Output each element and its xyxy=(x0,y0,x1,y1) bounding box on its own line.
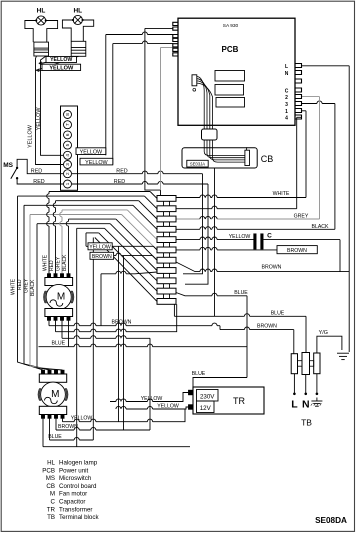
connector pair row 7 xyxy=(157,257,176,263)
svg-text:C: C xyxy=(51,499,56,506)
wire: capacitor right side xyxy=(264,239,341,241)
wire harness line L1 (motor2 white) xyxy=(49,191,150,193)
wire: PCB left top wire to chain xyxy=(145,27,173,29)
svg-text:Halogen lamp: Halogen lamp xyxy=(59,460,98,467)
svg-text:GREY: GREY xyxy=(294,213,309,219)
wire: motor2 blue xyxy=(50,439,94,441)
svg-text:Microswitch: Microswitch xyxy=(59,475,92,482)
svg-text:230V: 230V xyxy=(200,393,215,400)
transformer TR box xyxy=(193,387,264,414)
halogen lamp HL1 xyxy=(25,16,58,42)
TB connecting bars xyxy=(298,361,303,367)
svg-text:HL: HL xyxy=(37,8,46,15)
wire: yellow to transformer 230V xyxy=(110,393,189,402)
svg-text:MS: MS xyxy=(3,162,13,169)
svg-text:L: L xyxy=(291,399,298,411)
svg-text:N: N xyxy=(285,71,289,77)
wire harness line L5 (motor1 white) xyxy=(62,209,127,211)
wire: MS bottom contact to strip 1 xyxy=(17,178,63,184)
svg-text:M: M xyxy=(51,389,59,400)
svg-text:YELLOW: YELLOW xyxy=(49,65,74,71)
wire: yellow branch to chain row6 xyxy=(86,245,153,247)
terminal strip block xyxy=(61,106,78,190)
svg-text:4: 4 xyxy=(65,154,70,157)
PCB internal connector xyxy=(192,75,197,86)
svg-text:YELLOW: YELLOW xyxy=(141,396,163,402)
svg-text:Fan motor: Fan motor xyxy=(59,491,87,498)
wire: chain row2 to PCB pin 4 xyxy=(176,208,297,210)
svg-text:YELLOW: YELLOW xyxy=(36,107,42,131)
PCB power unit box xyxy=(178,18,295,125)
CB connector xyxy=(245,150,250,165)
fan motor M1 xyxy=(44,274,74,321)
PCB left edge pins xyxy=(173,22,178,56)
connector pair row 1 xyxy=(157,196,176,202)
wire harness line L6 (motor1 red) xyxy=(30,214,122,216)
wire: yellow vertical 2 down to transformer xyxy=(123,256,125,430)
svg-text:YELLOW: YELLOW xyxy=(80,149,103,155)
svg-text:YELLOW: YELLOW xyxy=(229,234,251,240)
wire: chain row1 WHITE to PCB pin 1 xyxy=(176,197,306,199)
ground symbol (YG) xyxy=(337,353,349,359)
microswitch MS xyxy=(16,167,18,169)
wire: PCB pin 1 xyxy=(302,110,307,112)
wire: PCB left grey wire xyxy=(161,47,174,49)
svg-text:BLUE: BLUE xyxy=(234,290,248,296)
terminal 6 xyxy=(64,131,72,139)
lamp1 socket block xyxy=(34,42,49,56)
wire: chain row10 BLUE to transformer xyxy=(176,293,247,296)
svg-text:BLACK: BLACK xyxy=(62,254,68,271)
wire: strip terminal 1 RED to right xyxy=(72,183,208,185)
svg-text:HL: HL xyxy=(47,460,55,467)
wire: yellow vertical down to transformer xyxy=(118,246,120,421)
svg-text:PCB: PCB xyxy=(42,467,55,474)
svg-text:YELLOW: YELLOW xyxy=(89,244,111,250)
wire: lamp2 left lead diagonal xyxy=(41,56,74,63)
svg-text:1: 1 xyxy=(285,109,288,115)
svg-text:1: 1 xyxy=(65,182,70,185)
connector pair row 4 xyxy=(157,226,176,232)
wire: harness L1 down to motor1 pin1 xyxy=(48,192,50,274)
wire: harness L10 vertical down to yellow branch xyxy=(85,233,87,246)
svg-text:6: 6 xyxy=(65,133,70,136)
svg-text:3: 3 xyxy=(65,163,70,166)
svg-text:BLUE: BLUE xyxy=(271,311,285,317)
svg-text:BLACK: BLACK xyxy=(30,279,36,296)
PCB ribbon cable to CB xyxy=(197,77,213,130)
svg-text:3: 3 xyxy=(285,102,288,108)
lamp2 socket block xyxy=(71,41,86,56)
wire: motor1 pin2 xyxy=(56,304,177,332)
wire vertical PCB grey wire down to connector chain xyxy=(160,48,162,191)
TB earth symbol xyxy=(311,398,323,407)
wire: PCB left pin to strip 3 (yellow) xyxy=(113,43,173,45)
svg-text:N: N xyxy=(302,399,310,411)
TR pin 230V xyxy=(188,390,193,395)
svg-text:L: L xyxy=(285,64,288,70)
svg-text:C: C xyxy=(267,233,272,240)
terminal 4 xyxy=(64,151,72,159)
wire: PCB pin 2 xyxy=(302,96,320,98)
wire: motor1 blue xyxy=(39,346,248,348)
PCB relay 3 xyxy=(216,98,245,108)
wire: harness L8 down to motor2 pin4 xyxy=(37,224,63,370)
PCB relay 1 xyxy=(215,71,245,82)
svg-text:Control board: Control board xyxy=(59,483,97,490)
wire: chain row11 BLUE to TB N xyxy=(174,315,306,317)
svg-text:CB: CB xyxy=(261,154,274,164)
PCB relay 2 xyxy=(215,85,244,96)
wire: lamp2 right lead diagonal xyxy=(36,56,79,70)
control board CB box xyxy=(182,148,257,168)
wire: PCB pin 3 xyxy=(302,103,335,105)
connector pair row 6 xyxy=(157,247,176,253)
wire harness line L9 xyxy=(77,227,105,229)
wire vertical PCB-to-strip3 xyxy=(112,44,114,165)
capacitor C xyxy=(254,234,257,249)
wire vertical PCB top wire down to connector chain xyxy=(145,28,161,195)
CB cable curve xyxy=(204,148,245,162)
wire harness line L3 (motor2 grey) xyxy=(56,200,139,202)
wire: strip terminal 2 RED to right xyxy=(72,173,203,175)
svg-text:BROWN: BROWN xyxy=(112,320,132,326)
terminal 7 xyxy=(64,121,72,129)
wire: harness L11 vertical down xyxy=(92,238,94,441)
wire: yellow to transformer 12V xyxy=(116,407,189,409)
fan motor M2 xyxy=(38,370,68,419)
TR 12V box xyxy=(197,401,215,413)
terminal 2 xyxy=(64,170,72,178)
svg-text:RED: RED xyxy=(31,169,42,175)
wire harness line L8 (motor1 black) xyxy=(37,223,110,225)
svg-text:GREY: GREY xyxy=(55,256,61,271)
svg-text:2: 2 xyxy=(65,172,70,175)
wire: harness L4 down to motor2 pin2 xyxy=(24,205,50,370)
wire: chain row8 left to TB brown feed xyxy=(101,272,157,274)
wire: red vertical down to chain row8 xyxy=(183,174,203,274)
wire harness line L4 (motor2 black) xyxy=(24,204,133,206)
connector pair row 11 xyxy=(157,299,176,305)
wire: harness L3 down to motor1 pin2 xyxy=(55,201,57,274)
svg-text:4: 4 xyxy=(285,115,288,121)
wire harness line L7 (motor1 grey) xyxy=(69,218,116,220)
terminal 8 xyxy=(64,111,72,119)
TR pin 12V xyxy=(188,405,193,410)
svg-text:TR: TR xyxy=(233,396,245,406)
connector pair row 10 xyxy=(157,288,176,294)
label YELLOW (strip 3 wire) xyxy=(80,158,113,165)
svg-text:2: 2 xyxy=(285,95,288,101)
wire: motor2 brown xyxy=(56,429,150,431)
wire: red vertical down to chain row9 xyxy=(185,184,208,284)
wire: chain row3 GREY to PCB pin 2 xyxy=(176,218,320,220)
terminal block TB N xyxy=(302,353,310,375)
wire: MS top contact to strip 2 xyxy=(17,159,63,173)
svg-text:PCB: PCB xyxy=(222,45,239,54)
terminal 1 xyxy=(64,180,72,188)
svg-text:RED: RED xyxy=(114,179,125,185)
label YELLOW (harness) boxed xyxy=(88,243,112,250)
connector pair row 8 xyxy=(157,268,176,274)
wire harness line L10 xyxy=(86,232,99,234)
wire: PCB left pin to strip 4 (yellow) xyxy=(106,34,173,36)
svg-text:Y/G: Y/G xyxy=(319,330,328,336)
svg-text:TR: TR xyxy=(47,506,56,513)
svg-text:BLACK: BLACK xyxy=(311,224,329,230)
wire vertical PCB-to-strip4 xyxy=(105,35,107,156)
svg-text:WHITE: WHITE xyxy=(273,191,290,197)
svg-text:TB: TB xyxy=(301,418,312,428)
label BROWN (harness) boxed xyxy=(90,252,114,259)
svg-text:5: 5 xyxy=(65,143,70,146)
svg-text:8: 8 xyxy=(65,113,70,116)
svg-text:Terminal block: Terminal block xyxy=(59,514,99,521)
wire: motor1 pin3 xyxy=(62,337,150,339)
svg-text:YELLOW: YELLOW xyxy=(28,124,34,148)
wire: motor2 yellow xyxy=(63,409,186,422)
svg-text:TB: TB xyxy=(47,514,55,521)
svg-text:RED: RED xyxy=(49,260,55,271)
terminal block TB earth xyxy=(314,353,320,374)
label YELLOW callout 1 (lamp wires) xyxy=(46,57,77,63)
svg-text:YELLOW: YELLOW xyxy=(50,57,72,63)
wire: harness L9 vertical down xyxy=(76,228,78,446)
svg-text:YELLOW: YELLOW xyxy=(157,404,179,410)
connector pair row 3 xyxy=(157,216,176,222)
wire: harness L2 down to motor2 pin1 xyxy=(18,196,44,370)
wire: lamp1 right to strip 4 xyxy=(41,56,64,155)
svg-text:12V: 12V xyxy=(200,405,212,412)
svg-text:M: M xyxy=(57,292,65,303)
svg-text:Capacitor: Capacitor xyxy=(59,499,85,506)
terminal 5 xyxy=(64,141,72,149)
wire: chain row6 to brown boxed label xyxy=(176,249,277,251)
wire: blue to transformer top xyxy=(193,378,247,388)
wire: harness L6 down to motor2 pin3 xyxy=(30,215,56,371)
svg-text:Power unit: Power unit xyxy=(59,467,89,474)
svg-text:MS: MS xyxy=(46,475,55,482)
svg-text:BROWN: BROWN xyxy=(257,323,277,329)
svg-text:M: M xyxy=(50,491,55,498)
svg-text:SA 930: SA 930 xyxy=(223,23,239,29)
wire: motor1 pin1 brown to TB L xyxy=(49,325,220,327)
wire: lamp1 to strip 3 xyxy=(36,56,64,165)
TR 230V box xyxy=(197,390,219,402)
svg-text:BROWN: BROWN xyxy=(262,265,282,271)
halogen lamp HL2 xyxy=(62,15,93,41)
svg-text:WHITE: WHITE xyxy=(11,278,17,295)
wire: chain row5 YELLOW to capacitor xyxy=(176,239,254,241)
wire: TB earth to ground YG xyxy=(317,336,342,353)
wire: motor2 pin1 xyxy=(43,446,190,448)
svg-text:C: C xyxy=(285,88,289,94)
svg-text:RED: RED xyxy=(33,179,44,185)
svg-text:Transformer: Transformer xyxy=(59,506,92,513)
svg-text:HL: HL xyxy=(73,8,82,15)
PCB right edge pins xyxy=(295,64,302,120)
wire: PCB pin 4 xyxy=(297,116,302,118)
svg-text:YELLOW: YELLOW xyxy=(85,160,108,166)
svg-text:RED: RED xyxy=(116,169,127,175)
svg-text:7: 7 xyxy=(65,123,70,126)
svg-text:YELLOW: YELLOW xyxy=(71,416,93,422)
connector pair row 9 xyxy=(157,278,176,284)
svg-text:BROWN: BROWN xyxy=(92,254,112,260)
CB label SE03JA xyxy=(187,160,208,167)
svg-text:BLUE: BLUE xyxy=(48,434,62,440)
wire: harness L5 down to motor1 pin3 xyxy=(61,210,63,274)
label YELLOW callout 2 (lamp wires) xyxy=(42,64,81,70)
wire harness line L2 (motor2 red) xyxy=(18,195,145,197)
wire: chain row4 BLACK to PCB pin 3 xyxy=(176,228,335,230)
label BROWN boxed xyxy=(277,246,317,254)
svg-text:BROWN: BROWN xyxy=(58,424,78,430)
terminal block TB L xyxy=(291,354,297,374)
svg-text:CB: CB xyxy=(46,483,55,490)
svg-text:BROWN: BROWN xyxy=(287,248,307,254)
svg-text:SE03JA: SE03JA xyxy=(190,162,205,167)
label YELLOW (strip 4 wire) xyxy=(76,148,106,155)
connector pair row 5 xyxy=(157,237,176,243)
connector pair row 2 xyxy=(157,206,176,212)
svg-text:BLUE: BLUE xyxy=(192,371,206,377)
wire harness line L11 xyxy=(95,238,157,302)
ferrite bead on cable xyxy=(202,129,218,140)
wire: brown branch to chain row7 xyxy=(93,255,152,257)
svg-text:WHITE: WHITE xyxy=(42,254,48,271)
wire: PCB pin L to right edge down xyxy=(302,65,350,67)
svg-text:GREY: GREY xyxy=(24,278,30,293)
TB wire stubs down xyxy=(293,374,295,393)
terminal 3 xyxy=(64,161,72,169)
svg-text:BLUE: BLUE xyxy=(52,341,66,347)
wire: chain row7 BROWN to right xyxy=(176,262,349,272)
svg-text:RED: RED xyxy=(17,279,23,290)
wire: harness L7 down to motor1 pin4 xyxy=(68,219,70,273)
svg-text:SE08DA: SE08DA xyxy=(315,516,347,525)
